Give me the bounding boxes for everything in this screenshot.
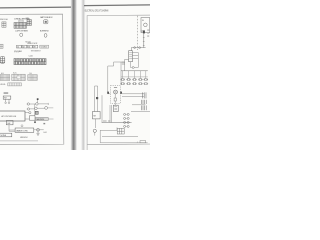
tick right bbox=[43, 123, 45, 124]
label dashes left of switch bbox=[122, 62, 125, 65]
horizontal wires mid bbox=[108, 94, 144, 97]
svg-text:TERM ARRGT: TERM ARRGT bbox=[31, 50, 42, 53]
pin circle row1 bbox=[27, 103, 29, 105]
wires from K1 down bbox=[6, 99, 9, 102]
branch to left devices bbox=[108, 62, 125, 94]
connector grid D bbox=[27, 20, 31, 26]
main feed wire down bbox=[130, 48, 132, 51]
circles on wire bbox=[134, 47, 136, 49]
ground symbol bbox=[37, 131, 39, 133]
connector ticks pair bbox=[143, 92, 146, 98]
vertical pair wires bbox=[110, 105, 112, 123]
bottom small box bbox=[0, 133, 12, 137]
switch 1 bbox=[36, 103, 39, 106]
hatched connector block 1 bbox=[0, 75, 10, 81]
left page frame bbox=[0, 14, 64, 145]
svg-text:B-TERM NO: B-TERM NO bbox=[40, 31, 49, 33]
bottom thin rule bbox=[0, 140, 38, 142]
fuse row 2 bbox=[121, 83, 148, 85]
svg-text:(R) (L) | B-R: (R) (L) | B-R bbox=[14, 51, 22, 53]
wire CHK down bbox=[9, 125, 15, 131]
svg-text:A/T CONT MODULE: A/T CONT MODULE bbox=[1, 115, 17, 118]
dashed boundary line bbox=[137, 16, 139, 50]
ECU box bbox=[0, 111, 25, 121]
small oval center bbox=[20, 33, 23, 36]
svg-text:F-NO.1 GH: F-NO.1 GH bbox=[0, 19, 8, 21]
bottom right tag bbox=[140, 141, 146, 143]
switch 2 bbox=[35, 107, 38, 110]
gutter shadow right band bbox=[81, 0, 86, 150]
wires left of switch bbox=[125, 59, 129, 70]
battery / FL box bbox=[141, 18, 150, 33]
wires ECU right bbox=[25, 113, 29, 119]
resistor box bbox=[113, 105, 118, 111]
bottom bus bbox=[102, 122, 132, 124]
box below switches bbox=[29, 116, 35, 120]
cluster short strokes bbox=[141, 100, 146, 110]
drop wire bbox=[34, 104, 36, 116]
second bus under rows bbox=[121, 76, 148, 78]
small connector grid bottom bbox=[117, 128, 124, 134]
svg-text:WIRE COLOR: WIRE COLOR bbox=[27, 43, 38, 45]
wires into left middle bbox=[95, 86, 102, 123]
starter motor circle bbox=[114, 90, 118, 94]
svg-text:CODE 22: CODE 22 bbox=[41, 47, 47, 49]
terminal right of box bbox=[37, 128, 40, 131]
svg-text:ELECTRICAL CIRCUIT DIAGRAM: ELECTRICAL CIRCUIT DIAGRAM bbox=[85, 9, 109, 13]
svg-text:DIAG TERM: DIAG TERM bbox=[36, 118, 44, 121]
lamp symbol bottom left bbox=[93, 129, 96, 132]
svg-text:DATA LINK CONN: DATA LINK CONN bbox=[16, 129, 28, 132]
small dark connector bbox=[35, 111, 38, 114]
ignition switch barrel bbox=[129, 51, 133, 62]
small connector with cells y83 bbox=[8, 83, 22, 86]
small circle on wire bbox=[141, 30, 143, 32]
wires right of switch bbox=[132, 53, 138, 68]
page background bbox=[0, 0, 150, 150]
junction dot top bbox=[37, 98, 39, 100]
relay box K1 bbox=[3, 96, 11, 99]
right page top rule bbox=[84, 4, 150, 7]
small circle on branch bbox=[132, 67, 134, 69]
CHK box bbox=[6, 121, 13, 125]
wire left from circles bbox=[100, 127, 117, 130]
hatched connector block 2 bbox=[12, 74, 25, 80]
left long drop bbox=[120, 62, 122, 85]
right page frame bbox=[87, 15, 152, 152]
pin circle row3 bbox=[29, 112, 31, 114]
pin label smudges bbox=[147, 30, 149, 37]
svg-text:5-6: 5-6 bbox=[28, 47, 30, 49]
small oval right bbox=[44, 34, 47, 38]
svg-text:7-8: 7-8 bbox=[34, 47, 36, 49]
hline under cluster bbox=[131, 105, 150, 112]
starter label bbox=[114, 86, 117, 89]
starter inner box bbox=[114, 98, 116, 101]
left page top rule bbox=[0, 6, 71, 9]
inner bottom border bbox=[100, 130, 147, 143]
wide connector grid B bbox=[14, 23, 26, 29]
labels above hatched blocks bbox=[1, 72, 32, 75]
battery blob bbox=[143, 30, 145, 33]
small label box mid bbox=[19, 20, 23, 22]
label box right bbox=[40, 45, 49, 48]
svg-text:BATT FUSE BOX: BATT FUSE BOX bbox=[40, 16, 53, 19]
data link connector box bbox=[15, 128, 34, 132]
junction dot lower bbox=[34, 120, 36, 121]
svg-text:1-2: 1-2 bbox=[17, 47, 19, 49]
dark connector square bbox=[96, 97, 98, 99]
starter dashed box bbox=[110, 86, 120, 104]
tiny dash mark bbox=[4, 92, 9, 94]
mid long bus bbox=[102, 136, 138, 138]
battery icon bbox=[44, 20, 48, 24]
connector circle pairs bbox=[124, 113, 130, 127]
svg-text:3-4: 3-4 bbox=[23, 47, 25, 49]
plus terminal bbox=[21, 125, 23, 127]
gray label bar bbox=[35, 118, 48, 121]
round connector icon left bbox=[0, 57, 5, 64]
connector grid A bbox=[2, 22, 6, 27]
starter terminals bbox=[107, 92, 109, 94]
partial connector icon at left edge bbox=[0, 44, 3, 48]
risers from bus to fuses bbox=[123, 71, 146, 79]
pin circle row2 bbox=[27, 108, 29, 110]
hatched connector block 3 bbox=[28, 75, 37, 81]
long pin connector bbox=[14, 59, 46, 65]
wire from battery down bbox=[143, 33, 145, 47]
wire from box down bbox=[95, 119, 97, 128]
title text bbox=[85, 9, 109, 13]
top horizontal wire bbox=[131, 47, 145, 49]
svg-text:MB990784: MB990784 bbox=[20, 137, 28, 139]
terminals under K1 bbox=[5, 102, 7, 104]
label boxes row bbox=[17, 45, 38, 48]
label box texts bbox=[17, 47, 35, 49]
ticks on battery wire bbox=[143, 37, 145, 45]
bus label dashes bbox=[103, 120, 110, 123]
bus line bbox=[121, 70, 148, 72]
small box mid-left bbox=[93, 112, 101, 119]
fuse row 1 bbox=[121, 79, 148, 81]
svg-text:(C) FRONT HARN: (C) FRONT HARN bbox=[15, 30, 28, 33]
gutter shadow left band bbox=[71, 0, 78, 150]
